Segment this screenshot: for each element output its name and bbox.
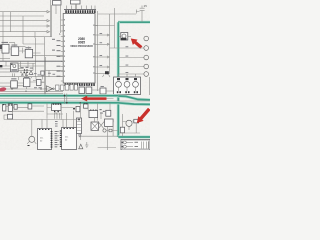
box X1 [56, 85, 60, 90]
IC U7 [24, 77, 45, 89]
net label specks right of IC [100, 33, 103, 66]
glyphs right of Y4 [100, 109, 105, 114]
RGB output box with transistors [114, 77, 141, 95]
box X8 [100, 88, 106, 94]
IC U9 RAM [38, 129, 53, 150]
wire vertical bus pair x51 [50, 0, 53, 37]
wire vertical x44.5 long [44, 37, 46, 96]
junction dots bundle [11, 88, 41, 92]
wire y63.5 stub [19, 63, 36, 65]
wires down to RAM ICs [42, 111, 74, 129]
box Y0a below green [3, 104, 6, 111]
wire crossing diagonals [98, 122, 104, 130]
label specks above RAM area [34, 86, 42, 89]
green net bus upper right bend [118, 96, 150, 100]
bus bundle y89 [0, 88, 63, 90]
wire vertical x110 [109, 103, 111, 112]
connector stub left edge [0, 65, 2, 67]
wire vertical right of IC x97.7 [97, 11, 99, 88]
wire vertical x23 [22, 16, 24, 44]
label specks mid-left [20, 67, 33, 76]
label specks above output boxes [80, 85, 104, 87]
diode D2 triangle [79, 144, 83, 149]
wire bus top-left y16 [0, 15, 44, 17]
IC U1 label [70, 37, 93, 48]
wire bus top-left y31.7 [0, 31, 50, 33]
red arrow annotation A3 down-left [137, 108, 151, 123]
box Y2 [12, 104, 44, 111]
IC U1 right pin numbers [92, 25, 95, 74]
page edge line right [148, 77, 150, 95]
box Y3b left [76, 107, 80, 112]
wire y147.5 [98, 147, 116, 149]
IC Y5 [105, 119, 114, 136]
box X2 [61, 85, 64, 90]
resistor R1 zigzag [20, 72, 28, 75]
box U7b [33, 80, 45, 86]
wire vertical bus x109.5 [109, 14, 111, 74]
IC U1 bottom pins [65, 83, 95, 86]
wire vertical x101 [100, 112, 102, 119]
wire bus top-left y20.7 [0, 20, 50, 22]
box Y0b [8, 104, 12, 112]
IC U1 right pin stubs [95, 26, 98, 74]
IC U1 top stub wires [67, 4, 96, 10]
node dots [24, 69, 28, 73]
ground symbol [85, 142, 88, 147]
box X7 [86, 87, 92, 94]
component glyph near IC corner [103, 71, 111, 77]
wire vertical x45.6 [45, 57, 47, 96]
wire right y66.5 [118, 66, 144, 68]
IC U1 video processor body [63, 14, 95, 84]
background paper [0, 0, 150, 150]
wire vertical x35.5 [35, 38, 37, 77]
junction dots on green [64, 95, 81, 104]
IC U1 left pin stubs [61, 20, 63, 81]
wire y136.2 [80, 135, 122, 137]
pin label specks left of IC [52, 39, 61, 77]
transistor Q8 [144, 55, 149, 60]
gate U3 [9, 43, 25, 56]
gray line y101 [0, 100, 150, 102]
bus line y76.7 [0, 76, 63, 78]
small box R3 [41, 71, 44, 75]
wire vertical pair x80.3 [79, 103, 81, 140]
transistor Q11 [27, 120, 36, 147]
glyph cluster left of Q12 [103, 129, 118, 132]
wire vertical x22.3 [21, 48, 23, 54]
wire bus top-left y26 [0, 25, 50, 27]
legend box [121, 140, 150, 151]
capacitor C1 [136, 4, 147, 22]
transistor Q5 box [118, 33, 131, 41]
green net bus upper [0, 94, 118, 97]
wire below U5 [13, 73, 15, 76]
buffer U8 triangle [45, 86, 55, 92]
box Y3c under green [84, 103, 89, 108]
wire y55.7 [33, 55, 63, 57]
junction wires crossing green bus [65, 94, 67, 105]
svg-text:VIDEO PROCESSOR: VIDEO PROCESSOR [70, 46, 93, 48]
wire vertical x47 [46, 103, 48, 119]
wire y58.5 [0, 58, 10, 60]
wire right y48 [110, 47, 144, 49]
green net horizontal top right [118, 21, 150, 24]
IC U1 top pin rail [64, 9, 96, 11]
box Y4b [106, 110, 111, 116]
wires linking output boxes [85, 88, 114, 91]
connector CN2 tall box [77, 118, 82, 134]
wire bus top-left y36.7 [0, 36, 45, 38]
pin number column with arrows [55, 131, 60, 147]
bus line y61.2 [0, 60, 63, 62]
gate U2 [0, 42, 11, 53]
red arrow annotation A2 big left [81, 96, 107, 102]
wire y133 [118, 132, 140, 134]
bus bundle y93.4 [0, 92, 63, 94]
green net bottom right [118, 135, 150, 138]
wire y25.5 to x114.5 [95, 8, 115, 48]
wire right y74 [118, 73, 144, 75]
extra specks cluster [30, 73, 55, 76]
wire vertical x10.5 [10, 12, 12, 32]
IC U1 top pins [65, 10, 95, 13]
transistor Q12 [120, 114, 132, 137]
box X5 [74, 85, 77, 91]
IC U1 right stub arrow y73.3 [98, 72, 110, 74]
diode D1 triangle [29, 71, 33, 75]
IC Y3 [47, 103, 73, 119]
glyph H below connector [78, 135, 81, 138]
wire bus top-left y11.7 [0, 11, 50, 13]
box X6 [79, 87, 85, 94]
green net vertical x118 [117, 22, 120, 137]
box X3 [65, 85, 69, 91]
IC U5 [0, 63, 45, 72]
svg-text:25: 25 [144, 4, 148, 8]
crystal XT1 [91, 118, 99, 131]
bus bundle y91.3 [0, 90, 63, 92]
wire y44 [23, 43, 45, 45]
gate U4 [19, 46, 41, 57]
red annotation blob left [0, 87, 7, 92]
red arrow annotation A1 [131, 39, 143, 49]
transistor Q10 [144, 72, 149, 77]
connector J1 top [53, 1, 62, 34]
transistor Q6 [144, 36, 149, 41]
dark tick right [121, 38, 127, 40]
small box above IC [71, 0, 81, 10]
wire vertical x107.4 [106, 126, 108, 150]
resistor R2 box [132, 119, 139, 133]
IC Y4 [88, 104, 98, 118]
green net bus lower [0, 103, 150, 105]
right line label specks [126, 46, 129, 73]
transistor Q7 [144, 46, 149, 51]
IC U10 RAM [60, 128, 77, 150]
wire vertical x12.4 [11, 111, 13, 119]
pin specks above RAM H [55, 121, 58, 127]
wire y14 across top right [98, 13, 136, 15]
wire y70.4 [45, 69, 64, 71]
transistor Q9 [144, 64, 149, 69]
wire vertical x3 [2, 12, 4, 62]
gray line y98.5 [0, 98, 114, 100]
short interconnect wires band [0, 61, 49, 86]
wire y36.7 jog [45, 36, 52, 38]
connector loop bottom left [4, 114, 80, 119]
wires under Y3 [55, 113, 60, 119]
svg-text:8085: 8085 [78, 41, 85, 45]
stubs from transistor box to lines above [119, 74, 136, 77]
IC U1 right stub arrow y44.3 [98, 43, 110, 45]
IC U1 left pin numbers [63, 19, 66, 77]
box Y1 below green [6, 104, 28, 109]
IC U1 right stub arrow y57 [98, 56, 110, 58]
IC U1 right stub arrow y67 [98, 66, 110, 68]
IC U6 [0, 77, 24, 89]
wire vertical x97.6 [97, 103, 99, 121]
node dots pair [73, 108, 78, 110]
IC U1 right stub arrow y35 [98, 34, 110, 36]
wire vertical x35 upper [34, 32, 36, 38]
wire right y57.5 [118, 57, 144, 59]
box X4 [70, 85, 73, 91]
wire y68.9 [0, 68, 11, 70]
